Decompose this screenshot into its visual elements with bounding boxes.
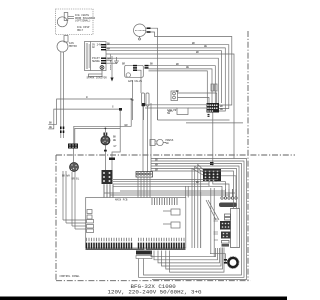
svg-text:ACTUATOR: ACTUATOR [135, 29, 146, 32]
svg-text:ONLY: ONLY [77, 29, 84, 32]
svg-text:BR: BR [122, 63, 126, 66]
svg-text:SENSE: SENSE [92, 60, 100, 63]
svg-text:BK: BK [196, 181, 200, 184]
svg-text:MAIN PCB: MAIN PCB [115, 199, 128, 202]
svg-text:HIGH VOLTAGE: HIGH VOLTAGE [109, 54, 112, 70]
svg-text:(OPTIONAL): (OPTIONAL) [75, 19, 91, 23]
svg-text:BK: BK [155, 159, 159, 162]
svg-text:BK: BK [150, 63, 154, 66]
svg-text:BK: BK [49, 122, 53, 125]
svg-text:BK: BK [176, 63, 180, 66]
svg-text:BR: BR [125, 124, 129, 127]
svg-text:WH: WH [49, 126, 53, 129]
svg-text:WH: WH [204, 45, 208, 48]
svg-text:120V, 220-240V 50/60Hz, 3+G: 120V, 220-240V 50/60Hz, 3+G [108, 289, 202, 296]
svg-text:SPARK IGNITOR: SPARK IGNITOR [87, 77, 108, 80]
svg-text:GAS: GAS [168, 110, 173, 113]
svg-text:MOTOR: MOTOR [69, 45, 77, 48]
svg-text:OR: OR [107, 58, 111, 61]
svg-text:SW: SW [166, 142, 170, 145]
svg-text:CONTROL PANEL: CONTROL PANEL [60, 275, 81, 278]
svg-text:BK: BK [176, 90, 180, 93]
svg-text:WH: WH [107, 48, 111, 51]
svg-text:BR: BR [155, 169, 159, 172]
svg-text:WH: WH [113, 139, 117, 142]
svg-text:GAS VALVE: GAS VALVE [128, 80, 142, 83]
svg-text:AC: AC [92, 46, 96, 49]
svg-text:BK WH: BK WH [62, 175, 70, 178]
svg-text:BK: BK [107, 43, 111, 46]
svg-text:BK: BK [192, 42, 196, 45]
svg-text:WH: WH [155, 164, 159, 167]
svg-text:WH: WH [186, 66, 190, 69]
svg-text:WH: WH [220, 108, 224, 111]
svg-text:BK: BK [196, 51, 200, 54]
svg-text:BR BL: BR BL [72, 178, 80, 181]
svg-text:GY: GY [114, 145, 118, 148]
